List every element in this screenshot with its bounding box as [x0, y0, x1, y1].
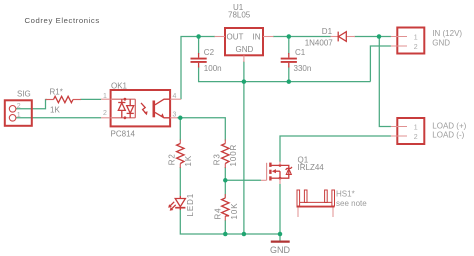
svg-text:C1: C1: [295, 48, 306, 57]
junction node C1 bottom: [287, 79, 292, 84]
junction node C2/5V: [196, 34, 201, 39]
junction node C1/12Vin: [287, 34, 292, 39]
voltage regulator U1: [215, 3, 274, 62]
svg-text:GND: GND: [270, 245, 291, 255]
svg-text:IRLZ44: IRLZ44: [298, 163, 325, 172]
wire gate node to Q1 gate: [225, 179, 261, 181]
wire ground symbol drop: [279, 234, 281, 241]
svg-text:4: 4: [173, 93, 177, 100]
svg-text:1: 1: [103, 93, 107, 100]
svg-text:OUT: OUT: [227, 33, 244, 42]
svg-text:IN (12V): IN (12V): [432, 29, 462, 38]
svg-text:R4: R4: [214, 207, 223, 219]
wire 5V rail from U1 OUT to left corner: [181, 37, 215, 100]
svg-text:Codrey Electronics: Codrey Electronics: [25, 16, 100, 25]
body diode: [286, 167, 292, 170]
interior emitter diodes: [112, 98, 135, 100]
svg-text:D1: D1: [322, 27, 333, 36]
resistor R2: [168, 140, 193, 169]
svg-text:78L05: 78L05: [228, 11, 251, 20]
resistor R1: [46, 88, 82, 115]
svg-text:330n: 330n: [294, 64, 312, 73]
svg-text:100n: 100n: [204, 64, 222, 73]
junction node OK1 pin3: [178, 116, 183, 121]
svg-text:LED1: LED1: [186, 193, 195, 217]
diode D1: [305, 27, 355, 48]
junction node R4 bottom: [223, 232, 228, 237]
wire gate node down to R4: [224, 180, 226, 197]
wire OK1 pin3 node down to R2: [179, 118, 181, 141]
connector LOAD: [391, 118, 467, 144]
wire C1 bottom branch: [288, 67, 290, 82]
wire 12V drop to LOAD pin1: [379, 37, 391, 127]
svg-text:GND: GND: [432, 39, 450, 48]
svg-text:R2: R2: [168, 153, 177, 165]
svg-text:GND: GND: [236, 45, 254, 54]
wire LOAD pin2 to Q1 drain: [280, 136, 391, 162]
wire R4 to bottom rail: [224, 220, 226, 234]
svg-text:HS1*: HS1*: [336, 190, 355, 199]
wire Q1 source to bottom rail: [279, 184, 281, 234]
svg-text:10K: 10K: [230, 203, 239, 220]
resistor R3: [213, 140, 238, 169]
wire R3 to gate node: [224, 167, 226, 180]
wire LED1 to bottom rail: [180, 210, 280, 235]
wire C2 top branch: [198, 37, 200, 55]
connector IN (12V)/GND: [391, 28, 463, 54]
wire U1 IN to D1: [273, 36, 331, 38]
svg-text:100R: 100R: [229, 144, 238, 167]
svg-text:PC814: PC814: [111, 130, 136, 139]
svg-text:1K: 1K: [184, 155, 193, 167]
wire SIG pin1 to OK1 pin2: [16, 117, 101, 119]
pin stubs: [101, 98, 111, 100]
svg-text:see note: see note: [336, 199, 367, 208]
svg-text:C2: C2: [204, 48, 215, 57]
svg-text:LOAD (-): LOAD (-): [432, 130, 464, 139]
transistor Q1: [261, 156, 324, 185]
resistor R4: [214, 194, 240, 221]
junction node gate divider: [223, 178, 228, 183]
svg-text:3: 3: [173, 111, 177, 118]
svg-text:1: 1: [17, 112, 21, 119]
wire D1 to IN junction: [355, 36, 392, 38]
svg-text:2: 2: [414, 44, 418, 51]
emission arrows: [170, 202, 174, 206]
svg-text:2: 2: [103, 110, 107, 117]
title text: [25, 16, 100, 25]
svg-text:R1*: R1*: [50, 88, 63, 97]
heatsink HS1: [297, 190, 368, 218]
wire U1 GND down to bottom rail: [243, 61, 245, 234]
wire C2 bottom to GND rail: [199, 67, 371, 82]
junction node GND rail right: [278, 232, 283, 237]
optocoupler OK1: [101, 82, 181, 139]
wire GND rail riser to IN pin2: [370, 46, 391, 82]
svg-text:2: 2: [17, 103, 21, 110]
svg-text:R3: R3: [213, 153, 222, 165]
wire SIG pin2 to R1: [16, 100, 47, 109]
light arrow: [141, 103, 146, 114]
svg-text:IN: IN: [253, 33, 261, 42]
phototransistor: [153, 101, 156, 118]
svg-text:OK1: OK1: [111, 82, 128, 91]
svg-text:2: 2: [414, 134, 418, 141]
svg-text:1: 1: [414, 34, 418, 41]
wire R2 to LED1: [179, 167, 181, 196]
wire R1 to OK1 pin1: [81, 98, 102, 100]
svg-text:LOAD (+): LOAD (+): [432, 121, 466, 130]
svg-text:1K: 1K: [50, 106, 60, 115]
junction node U1 GND rail: [242, 79, 247, 84]
ground symbol: [270, 242, 291, 255]
junction node D1/IN/LOAD: [377, 34, 382, 39]
wire OK1 pin3 node to R3: [177, 118, 225, 141]
svg-text:1N4007: 1N4007: [305, 39, 334, 48]
junction node GND rail center: [242, 232, 247, 237]
svg-text:1: 1: [414, 124, 418, 131]
capacitor C1: [281, 48, 312, 73]
wire C1 top branch: [288, 37, 290, 55]
connector SIG: [5, 90, 32, 126]
LED LED1: [168, 193, 195, 217]
capacitor C2: [191, 48, 222, 73]
svg-text:SIG: SIG: [17, 90, 31, 99]
